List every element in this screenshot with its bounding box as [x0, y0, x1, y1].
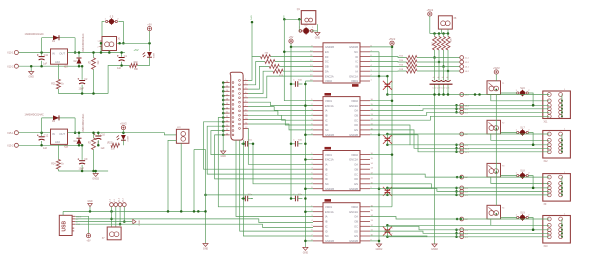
terminal X9: [543, 174, 571, 202]
DB25 left pin 24: [222, 125, 230, 127]
wire stub IC4 pin8: [305, 240, 313, 242]
wire block1 row6 feed from IC2: [370, 116, 549, 120]
wire X10 box to fuse: [501, 217, 518, 219]
svg-text:+5V: +5V: [134, 48, 139, 52]
svg-text:GP1: GP1: [250, 16, 252, 21]
wire stub IC3 VDD2: [370, 154, 392, 156]
wire X12 box to fuse: [501, 132, 518, 134]
svg-text:OA: OA: [354, 109, 358, 113]
svg-text:C13: C13: [437, 87, 440, 89]
wire bus DB25 pin9 to IC2: [248, 115, 313, 120]
wire b4 row2 extension: [387, 224, 490, 226]
wire GND2 bus C: [434, 95, 436, 245]
wire IC4 GND2B stub: [370, 240, 379, 242]
svg-text:R21: R21: [51, 84, 56, 86]
svg-text:OD: OD: [354, 123, 358, 127]
wire bus DB25 pin6 to IC2: [248, 102, 313, 105]
svg-text:GND: GND: [87, 201, 92, 203]
svg-text:USB: USB: [62, 221, 68, 232]
ground GND2 bus A: [376, 244, 381, 247]
svg-text:GND2B: GND2B: [325, 45, 334, 49]
resistor R21: [57, 64, 59, 79]
junction IC3 GND2B to bus: [378, 187, 381, 190]
svg-text:OD: OD: [354, 177, 358, 181]
svg-text:DB: DB: [325, 65, 329, 69]
wire pad 2-1 stem: [111, 207, 113, 227]
svg-text:12: 12: [245, 127, 247, 129]
DB25 left pin 17: [222, 95, 230, 97]
svg-text:EN: EN: [354, 128, 358, 132]
wire block2 row4 feed from IC2: [370, 130, 549, 148]
wire bus left pin25 to IC3 pin6: [215, 135, 313, 179]
svg-text:GND: GND: [221, 155, 227, 158]
svg-text:ID: ID: [325, 229, 328, 233]
wire DB25 ground bus: [222, 83, 224, 151]
supply +5V/2 symbol psu2: [121, 126, 125, 130]
svg-text:IB: IB: [325, 167, 328, 171]
wire X12 fuse to terminal: [528, 133, 533, 145]
svg-text:11: 11: [245, 122, 247, 124]
wire VDD bus from resonator to IC2 pin1: [284, 19, 313, 100]
wire USB GND line: [75, 224, 313, 227]
svg-text:ADJ: ADJ: [55, 140, 61, 144]
wire X9 box to fuse: [501, 175, 518, 177]
svg-text:17: 17: [226, 94, 228, 96]
resistor R16 series: [370, 65, 407, 67]
svg-text:9: 9: [245, 114, 246, 116]
svg-text:X10: X10: [544, 246, 549, 248]
solder pad 18-2: [460, 93, 464, 97]
jumper block T2: [487, 120, 501, 134]
jumper block T4: [487, 205, 501, 219]
capacitor C17 decoupling IC4a: [241, 198, 245, 200]
DB25 left pin 22: [222, 117, 230, 119]
capacitor C10: [97, 133, 99, 136]
wire bus left pin22 to IC3 pin4: [204, 122, 314, 169]
resistor R10: [248, 57, 261, 81]
connector X4 DB25: [230, 72, 243, 140]
wire block1 row5 feed from IC2: [370, 112, 549, 115]
svg-text:ID: ID: [325, 177, 328, 181]
svg-text:OB: OB: [354, 167, 358, 171]
wire bus left pin23 to IC3 pin5: [207, 126, 313, 174]
wire block4 row1 feed from IC4: [370, 217, 549, 220]
wire X9 common vertical: [561, 177, 563, 195]
svg-text:GND2: GND2: [376, 248, 383, 251]
supply +5V/2 above IC1 right: [390, 41, 394, 45]
wire D3 left riser: [41, 118, 43, 133]
wire pad 14-1 stem: [119, 207, 121, 225]
svg-text:6: 6: [245, 101, 246, 103]
wire riser to C1 bottom: [108, 66, 129, 94]
svg-text:IA: IA: [356, 70, 359, 74]
svg-text:ID: ID: [355, 55, 358, 59]
svg-text:+5V/2: +5V/2: [389, 38, 396, 41]
solder pad 6-2: [460, 175, 464, 179]
svg-text:+5V/2: +5V/2: [493, 67, 500, 70]
svg-text:GP2: GP2: [282, 16, 284, 21]
wire pullup top rail: [430, 33, 448, 35]
svg-text:VDD1: VDD1: [351, 79, 358, 83]
svg-text:GND2: GND2: [431, 248, 438, 251]
DB25 left pin 23: [222, 121, 230, 123]
supply +5V usb symbol: [86, 234, 90, 238]
DB25 right pin 10: [243, 119, 248, 121]
DB25 right pin 8: [243, 110, 248, 112]
wire riser IC3 pin7: [253, 144, 313, 184]
svg-text:GND2B: GND2B: [349, 239, 358, 243]
wire block2 row5 feed from IC2: [370, 135, 549, 152]
wire X10 common vertical: [561, 219, 563, 237]
solder pad 18-3: [460, 103, 464, 107]
resistor R3: [93, 133, 95, 138]
fuse SL7: [517, 131, 519, 133]
solder pad 5-1: [460, 193, 464, 197]
capacitor C7 not fitted: [386, 225, 388, 230]
svg-text:+5V: +5V: [289, 36, 294, 39]
solder pad 10-1: [460, 150, 464, 154]
solder pad 3-1: [460, 235, 464, 239]
wire stub IC4 VDD2: [370, 206, 392, 208]
wire stub IC1 pin10: [284, 51, 313, 53]
svg-text:IN: IN: [52, 132, 55, 136]
svg-text:GND1B: GND1B: [325, 187, 334, 191]
ground psu2: [95, 171, 97, 174]
solder pad 11-1: [460, 56, 464, 60]
junction dots block3 row1: [456, 176, 459, 179]
resistor R2: [93, 53, 95, 58]
wire GND2 bus A: [378, 52, 380, 244]
svg-text:22: 22: [226, 116, 228, 118]
solder pad 9-3: [460, 107, 464, 111]
driver IC IC3: [323, 151, 360, 191]
svg-text:IC7: IC7: [64, 66, 69, 69]
svg-text:VDD2: VDD2: [351, 205, 358, 209]
DB25 left pin 16: [222, 90, 230, 92]
svg-text:10: 10: [245, 118, 247, 120]
svg-text:7: 7: [245, 105, 246, 107]
wire bus DB25 pin12 to IC3: [248, 128, 313, 164]
svg-text:26: 26: [226, 134, 228, 136]
svg-text:OD: OD: [354, 229, 358, 233]
svg-text:IC8: IC8: [64, 146, 69, 149]
wire block3 row4 feed from IC3: [370, 189, 549, 192]
wire IC1 pin8 right stub: [370, 46, 392, 48]
wire bus DB25 pin8 to IC2: [248, 111, 313, 115]
DB25 left pin 25: [222, 130, 230, 132]
capacitor C16 decoupling IC3b: [291, 143, 295, 145]
wire pad group bus X10: [456, 230, 458, 237]
resonator Q2: [299, 30, 302, 33]
connector pad X15-2: [14, 143, 18, 147]
svg-text:20: 20: [226, 107, 228, 109]
svg-text:OA: OA: [354, 163, 358, 167]
svg-text:X13-2: X13-2: [7, 65, 14, 68]
wire riser mid: [193, 150, 195, 212]
capacitor C12: [41, 133, 43, 136]
svg-text:2: 2: [97, 47, 98, 49]
svg-text:VDD2: VDD2: [351, 99, 358, 103]
svg-text:GND: GND: [29, 76, 35, 79]
svg-text:ENC2A: ENC2A: [349, 104, 358, 108]
LED1: [149, 43, 151, 51]
wire fuse right leg: [118, 22, 123, 44]
DB25 left pin 14: [222, 82, 230, 84]
svg-text:23: 23: [226, 120, 228, 122]
voltage regulator IC8: [51, 129, 68, 144]
svg-text:1uF: 1uF: [117, 67, 122, 70]
svg-text:IC: IC: [325, 118, 328, 122]
wire mid link: [194, 149, 206, 151]
svg-text:EN: EN: [354, 182, 358, 186]
USB connector X2: [59, 215, 72, 235]
svg-text:NC: NC: [354, 50, 358, 54]
svg-text:14: 14: [226, 81, 228, 83]
power entry jack X1: [102, 37, 117, 51]
DB25 left pin 19: [222, 103, 230, 105]
wire block3 row1 feed from IC3: [370, 174, 549, 177]
diode D4: [78, 133, 80, 138]
svg-text:ENC1A: ENC1A: [325, 210, 334, 214]
wire IC1 ENC2A row to cap C3: [370, 75, 387, 77]
wire X11 common vertical: [561, 95, 563, 117]
solder pad 8-2: [460, 132, 464, 136]
wire JP2 output down left: [168, 140, 176, 211]
jumper block T3: [487, 163, 501, 177]
diode D3: [42, 117, 76, 119]
wire riser out rail to +5V rail: [100, 43, 102, 52]
resistor R17 pullup: [447, 32, 450, 35]
wire stub IC3 pin8: [305, 188, 313, 190]
wire block2 row3 feed from IC2: [370, 125, 549, 145]
svg-text:EN: EN: [325, 50, 329, 54]
wire +5V/2 feed vertical: [495, 95, 497, 206]
svg-text:10uF: 10uF: [79, 167, 85, 170]
svg-text:+5V/2: +5V/2: [120, 122, 127, 125]
DB25 right pin 7: [243, 106, 248, 108]
jumper block X7: [107, 227, 121, 240]
crystal housing Q1: [301, 11, 316, 25]
supply +5V symbol IC1: [289, 39, 293, 43]
resistor R11: [248, 62, 265, 85]
supply +5V symbol: [149, 31, 151, 44]
capacitor C14 decoupling IC1: [291, 83, 295, 85]
svg-text:4: 4: [245, 92, 246, 94]
wire b4 row5 extension: [387, 236, 427, 238]
voltage regulator IC7: [51, 49, 68, 64]
svg-text:1N4004DO214AC: 1N4004DO214AC: [25, 113, 45, 116]
svg-text:IC: IC: [325, 225, 328, 229]
svg-text:IA: IA: [325, 109, 328, 113]
DB25 right pin 5: [243, 97, 248, 99]
svg-text:ENC2A: ENC2A: [349, 210, 358, 214]
wire riser to IC4 pin6: [240, 140, 313, 231]
svg-text:1uF: 1uF: [101, 147, 106, 150]
fuse SL8: [517, 175, 519, 177]
wire block4 row4 feed from IC4: [370, 231, 549, 233]
wire riser to IC4 pin3: [236, 140, 313, 216]
capacitor C13: [81, 145, 83, 160]
svg-text:8: 8: [245, 109, 246, 111]
svg-text:VDD1: VDD1: [325, 153, 332, 157]
svg-text:C10: C10: [432, 87, 435, 89]
DB25 left pin 18: [222, 99, 230, 101]
DB25 right pin 2: [243, 84, 248, 86]
svg-text:OC: OC: [354, 172, 358, 176]
wire X10 box bottom to terminal row2: [491, 219, 550, 225]
resistor R15 series: [370, 56, 407, 59]
jumper block JP2: [176, 129, 189, 143]
wire bottom rail psu1: [58, 93, 108, 95]
wire bus left pin24 to IC3 pin1: [211, 131, 313, 155]
ground usb: [89, 207, 91, 212]
diode D2: [78, 53, 80, 58]
svg-text:10uF: 10uF: [79, 87, 85, 90]
svg-text:OB: OB: [354, 114, 358, 118]
svg-text:X13-1: X13-1: [7, 52, 14, 55]
wire pad 11-2 stem: [123, 207, 125, 222]
resistor R14 series: [370, 61, 407, 64]
wire X15 input rail: [19, 132, 51, 134]
wire block2 row1 feed: [387, 133, 549, 135]
svg-text:OC: OC: [354, 225, 358, 229]
svg-text:IA: IA: [325, 215, 328, 219]
svg-text:GND2: GND2: [138, 220, 140, 227]
wire JP2 bottom pin down: [180, 143, 182, 211]
wire regulator output rail: [68, 52, 125, 54]
wire b1 row1 extension: [387, 94, 452, 96]
svg-text:DA: DA: [325, 70, 329, 74]
capacitor C15 debounce: [443, 67, 445, 81]
wire fuse left leg: [102, 22, 105, 37]
wire X14 lower rail: [19, 65, 83, 67]
svg-text:18: 18: [226, 99, 228, 101]
capacitor C18 decoupling IC4b: [291, 198, 295, 200]
wire D1 right riser: [74, 38, 76, 53]
resistor R22: [111, 143, 120, 147]
wire +5V vertical bus: [290, 47, 292, 199]
svg-text:IB: IB: [325, 220, 328, 224]
DB25 left pin 26: [222, 134, 230, 136]
fuse F1 0.5A: [106, 20, 108, 22]
wire USB D- line: [75, 221, 132, 223]
terminal X11: [543, 91, 571, 119]
svg-text:VDD2: VDD2: [325, 79, 332, 83]
wire +5V rail from jack: [117, 42, 152, 44]
connector pad X13-1: [14, 51, 18, 55]
svg-text:1uF: 1uF: [43, 63, 48, 66]
wire bus DB25 pin7 to IC2: [248, 107, 313, 111]
ground bottom of GND bus: [303, 247, 308, 250]
wire bus DB25 pin10 to IC2: [248, 120, 313, 125]
DB25 right pin 1: [243, 79, 248, 81]
capacitor shared plate line: [430, 83, 453, 85]
svg-text:0.5: 0.5: [110, 15, 114, 18]
capacitor C11: [41, 53, 43, 56]
jumper block T1: [487, 81, 501, 95]
solder pad 10-3: [460, 146, 464, 150]
svg-text:GND2B: GND2B: [349, 187, 358, 191]
DB25 right pin 6: [243, 101, 248, 103]
svg-text:X12: X12: [544, 161, 549, 163]
wire GP1 stub: [251, 22, 253, 57]
solder pad 4-3: [460, 228, 464, 232]
supply +5V/2 symbol pullups: [428, 12, 432, 16]
svg-text:C15: C15: [441, 87, 444, 89]
wire USB D+ line: [75, 219, 313, 223]
svg-text:EN: EN: [354, 234, 358, 238]
wire D1 left riser: [41, 38, 43, 53]
svg-text:GND: GND: [203, 248, 209, 251]
svg-text:IN: IN: [52, 52, 55, 56]
fuse SL9: [517, 216, 519, 218]
svg-text:DC: DC: [325, 60, 329, 64]
svg-text:ENC1A: ENC1A: [349, 74, 358, 78]
driver IC IC2: [323, 97, 360, 137]
resistor R1: [130, 64, 138, 68]
wire usb shield riser: [62, 211, 64, 215]
ground: [30, 66, 32, 71]
svg-text:VDD1: VDD1: [325, 99, 332, 103]
LED2: [122, 133, 124, 135]
svg-text:19: 19: [226, 103, 228, 105]
svg-text:OB: OB: [354, 220, 358, 224]
wire stub IC1 pin2 right: [370, 51, 379, 53]
resistor R24: [57, 144, 59, 159]
svg-text:IB: IB: [356, 65, 359, 69]
resistor R13: [248, 71, 273, 93]
svg-text:X15-1: X15-1: [7, 132, 14, 135]
DB25 left pin 21: [222, 112, 230, 114]
solder pad 3-3: [460, 231, 464, 235]
wire LED2 to R22: [122, 141, 124, 146]
svg-text:OC: OC: [354, 118, 358, 122]
wire X9 fuse to terminal: [528, 176, 533, 188]
ground DB25: [221, 151, 226, 154]
svg-text:IA: IA: [325, 163, 328, 167]
svg-text:GND1B: GND1B: [325, 239, 334, 243]
driver IC IC1: [323, 43, 360, 83]
svg-text:GND: GND: [303, 252, 309, 255]
svg-text:GND2B: GND2B: [349, 133, 358, 137]
junction dots block4 row1: [456, 218, 459, 221]
wire regulator 2 output rail: [68, 133, 177, 135]
svg-text:13-1: 13-1: [465, 67, 470, 69]
solder pad 11-2: [122, 203, 126, 207]
connector pad X13-2: [14, 64, 18, 68]
svg-text:VDD2: VDD2: [351, 153, 358, 157]
wire pad group bus X9: [456, 188, 458, 195]
wire b2 row3 extension: [387, 144, 410, 146]
capacitor C10 debounce: [434, 58, 436, 81]
capacitor C2: [81, 66, 83, 80]
wire pad group bus X11: [456, 105, 458, 112]
svg-text:+5V/2: +5V/2: [426, 9, 433, 12]
svg-text:3: 3: [245, 88, 246, 90]
svg-text:C10: C10: [101, 134, 106, 137]
solder pad 13-1: [460, 65, 464, 69]
solder pad 12-2: [460, 60, 464, 64]
svg-text:25: 25: [226, 129, 228, 131]
svg-text:(R1): (R1): [134, 62, 139, 64]
wire mid vertical: [205, 150, 207, 244]
solder pad 9-1: [460, 110, 464, 114]
capacitor C13 debounce: [438, 62, 440, 80]
svg-text:1uF: 1uF: [43, 147, 48, 150]
solder pad 2-2: [114, 203, 118, 207]
svg-text:1N4004DO214AC: 1N4004DO214AC: [82, 113, 85, 132]
DB25 left pin 20: [222, 108, 230, 110]
